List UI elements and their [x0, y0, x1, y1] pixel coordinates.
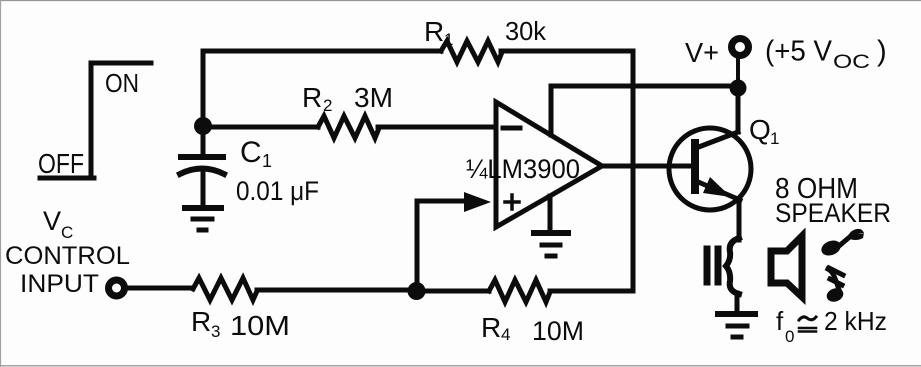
svg-text:2 kHz: 2 kHz: [824, 306, 887, 336]
svg-text:0: 0: [785, 327, 794, 346]
label (+5 Voc): [765, 36, 887, 74]
svg-text:OC: OC: [833, 52, 870, 73]
wire node C up to V+ terminal: [736, 58, 740, 88]
label f0 ~= 2 kHz: [776, 306, 887, 346]
label Vc: [43, 206, 73, 242]
ground under C1: [185, 208, 221, 230]
wire node B up to plus input: [417, 201, 467, 291]
svg-text:10M: 10M: [230, 310, 290, 341]
svg-text:): ): [877, 36, 887, 68]
label R2 3M: [302, 82, 393, 115]
svg-text:CONTROL: CONTROL: [5, 242, 130, 270]
svg-text:ON: ON: [105, 68, 139, 98]
svg-text:30k: 30k: [505, 16, 547, 46]
svg-text:1: 1: [444, 30, 453, 49]
svg-text:3: 3: [211, 322, 220, 341]
ground under op-amp: [534, 196, 568, 256]
svg-text:C: C: [61, 223, 73, 242]
minus input mark: [503, 126, 520, 131]
svg-text:f: f: [776, 306, 784, 336]
music note 1: [819, 229, 864, 258]
svg-text:1: 1: [262, 151, 272, 171]
resistor R4: [489, 280, 550, 302]
svg-text:4: 4: [501, 325, 510, 344]
node A junction dot: [194, 117, 212, 135]
wire R2 to minus input: [378, 125, 494, 130]
svg-text:INPUT: INPUT: [20, 270, 99, 298]
resistor R2: [318, 116, 379, 138]
svg-text:R: R: [302, 82, 322, 113]
arrowhead into plus input: [464, 192, 491, 212]
svg-text:3M: 3M: [354, 82, 393, 113]
speaker icon: [771, 236, 802, 297]
svg-text:1: 1: [770, 129, 779, 148]
wire input terminal to R3: [126, 286, 193, 291]
plus input mark: [505, 195, 519, 209]
wire V+ to op-amp top edge: [551, 86, 731, 135]
label R3 10M: [191, 306, 290, 341]
core bars: [707, 249, 718, 282]
wire top bus from node A: [203, 51, 441, 120]
wire node C down to collector: [736, 88, 741, 132]
wire R3 to node B: [257, 288, 410, 293]
music note 2: [825, 268, 845, 304]
svg-text:OFF: OFF: [38, 148, 84, 179]
label Q1: [749, 114, 779, 148]
svg-text:0.01 μF: 0.01 μF: [236, 176, 319, 206]
op-amp U1 (1/4 LM3900): [496, 102, 602, 227]
node C junction dot at V+: [730, 80, 747, 97]
wire right vertical (feedback bus): [631, 51, 636, 291]
svg-text:Q: Q: [749, 114, 771, 145]
svg-text:2: 2: [323, 96, 332, 115]
svg-text:¼LM3900: ¼LM3900: [466, 154, 580, 184]
label 8 OHM SPEAKER: [775, 173, 891, 228]
label CONTROL INPUT: [5, 242, 130, 298]
input terminal: [109, 280, 125, 296]
speaker voice coil (inductor): [726, 238, 739, 294]
resistor R1: [441, 41, 502, 62]
svg-text:10M: 10M: [532, 316, 584, 346]
svg-text:V: V: [43, 206, 61, 236]
wire coil to ground: [735, 293, 740, 311]
svg-text:R: R: [191, 306, 211, 337]
svg-text:(+5 V: (+5 V: [765, 36, 833, 68]
svg-text:C: C: [240, 136, 262, 169]
wire R1 to right vertical: [501, 49, 633, 54]
wire op-amp output to Q1 base: [600, 164, 660, 169]
svg-text:V+: V+: [685, 37, 719, 68]
wire node B to R4: [417, 289, 489, 294]
ground under coil: [718, 314, 755, 337]
resistor R3: [193, 278, 257, 300]
label R4 10M: [481, 312, 584, 346]
svg-text:R: R: [424, 16, 444, 47]
wire R4 to right vertical: [550, 289, 633, 294]
node B junction dot: [408, 282, 426, 300]
transistor Q1: [660, 128, 751, 210]
svg-text:SPEAKER: SPEAKER: [775, 198, 891, 228]
wire node A to R2: [203, 125, 318, 130]
wire emitter down to coil: [737, 200, 742, 240]
label R1 30k: [424, 16, 547, 49]
label C1 0.01 uF: [236, 136, 319, 206]
control waveform step (OFF/ON): [40, 63, 151, 178]
svg-text:R: R: [481, 312, 501, 343]
V+ terminal: [732, 39, 749, 56]
capacitor C1: [180, 133, 224, 206]
